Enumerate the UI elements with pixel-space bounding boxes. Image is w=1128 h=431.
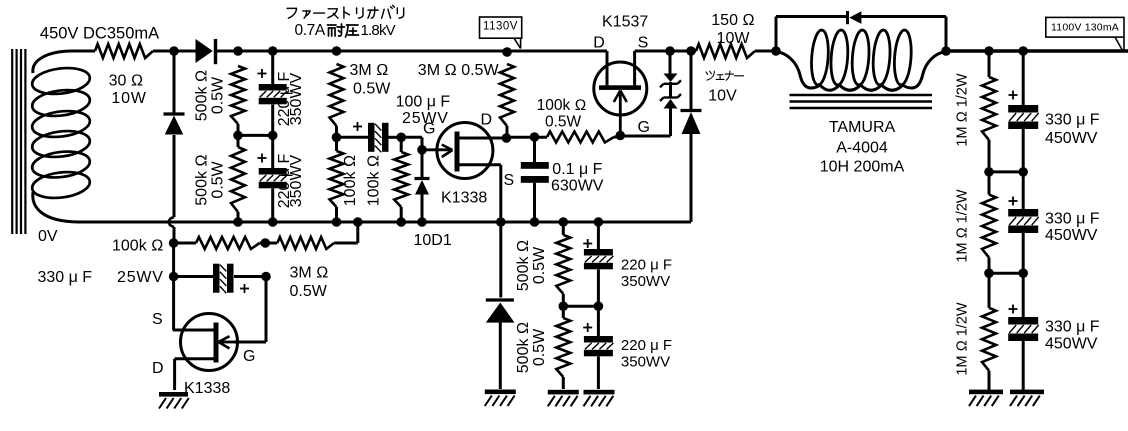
svg-text:S: S [152,311,163,328]
svg-text:1100V 130mA: 1100V 130mA [1051,22,1119,34]
inductor L1 core [790,95,933,108]
svg-text:1M Ω 1/2W: 1M Ω 1/2W [955,73,971,146]
svg-text:TAMURA: TAMURA [829,119,896,136]
wire top rail segment [153,50,196,53]
wire zener mid [669,82,672,98]
arrow gate Q2 [614,91,627,103]
transformer T1 primary winding [31,65,92,201]
wire 100k bottom [335,207,338,222]
wire hop to lower node [173,227,176,243]
transistor Q3 K1338 body [181,314,238,371]
transistor Q1 K1338 body [437,123,493,179]
node mid bleeder junctions [559,301,604,311]
polarity + t1 [583,239,592,248]
transistor Q3 channel bar [214,323,219,363]
label 0.5W lower2 [290,283,328,300]
resistor 100kΩ grid leak [196,237,260,249]
label 0.1μF [552,161,602,178]
wire 220u t2 ground [597,357,600,390]
resistor 100kΩ second [394,152,408,207]
label 100kΩ grid [112,238,163,255]
label 10V [708,88,737,105]
label TAMURA [829,119,896,136]
svg-text:0.5W: 0.5W [353,81,391,98]
label 220μF upper [276,71,293,126]
ground output resistor chain [969,390,1003,407]
wire drain Q3 [175,359,214,390]
wire diode D2 to hop [173,135,176,217]
svg-text:220 μ F: 220 μ F [621,257,672,274]
wire 500k t2 ground [562,377,565,389]
label 3MΩ lower [290,265,329,282]
resistor 500kΩ 0.5W lower [231,147,245,212]
resistor 100kΩ 0.5W [547,132,614,143]
wire 0V rail [78,221,691,224]
wire c2 bottom [1022,233,1025,273]
wire 0.1uF top [533,137,536,162]
svg-text:D: D [152,360,164,377]
svg-text:150 Ω: 150 Ω [711,12,754,29]
node cap junctions [332,133,406,143]
label G Q3 [243,348,255,365]
svg-text:D: D [593,35,605,52]
label 500kΩ upper [194,70,211,121]
wire c3 to ground [1022,341,1025,390]
label 450WV c2 [1045,227,1098,244]
ground 500k chain [548,390,579,407]
wire node to cap [337,136,369,139]
wire cap bottom [271,189,274,223]
wire drain lead Q2 [606,51,609,85]
label 1MΩ second [955,189,971,262]
label D Q1 [481,112,493,129]
label G Q1 [423,121,435,138]
svg-text:10D1: 10D1 [414,232,452,249]
label D Q3 [152,360,164,377]
wire col266 down [234,277,266,343]
label S Q1 [504,172,515,189]
svg-text:0.5W: 0.5W [290,283,328,300]
label 450WV c1 [1045,130,1098,147]
svg-text:3M Ω: 3M Ω [290,265,329,282]
wire hop over 0V rail [169,217,174,227]
node gate junction Q2 [616,131,626,141]
wire 3M to node [335,126,338,151]
node lower row junctions [169,238,270,248]
svg-text:350WV: 350WV [621,353,670,370]
svg-text:G: G [243,348,255,365]
label 100μF [396,94,451,111]
polarity + c2 [1009,197,1018,206]
label 0.5W [353,81,391,98]
svg-text:K1537: K1537 [602,14,648,31]
svg-text:A-4004: A-4004 [836,140,888,157]
wire choke bottom arcs [820,85,903,90]
label 05W t1 [531,246,548,284]
wire mid link 238-273 [238,134,273,137]
label 500k t1 [515,240,532,291]
wire 330u right [234,275,266,278]
ground output cap chain [1010,390,1044,407]
svg-text:450WV: 450WV [1045,336,1098,353]
label 0.7A 耐圧1.8kV [295,22,396,39]
wire from node A down [173,51,176,113]
svg-text:100k Ω: 100k Ω [537,97,587,114]
wire mid bleeder link [563,305,598,308]
label K1338 Q3 [184,380,230,397]
svg-text:0V: 0V [38,228,58,245]
wire prot diode top [499,222,502,298]
svg-text:0.1 μ F: 0.1 μ F [552,161,602,178]
callout 1130V [480,17,522,49]
svg-text:330 μ F: 330 μ F [1045,112,1100,129]
svg-text:K1338: K1338 [184,380,230,397]
resistor 3MΩ 0.5W lower [277,237,334,249]
wire 220u t2 top [597,306,600,336]
wire tier2 link [989,170,1023,173]
svg-text:220 μ F: 220 μ F [621,337,672,354]
label K1537 [602,14,648,31]
label 1MΩ third [955,302,971,375]
svg-text:0.5W: 0.5W [545,114,582,131]
svg-text:500k Ω: 500k Ω [194,154,211,205]
wire col173 down [172,243,175,330]
wire diode D3 top [690,51,693,109]
svg-text:S: S [504,172,515,189]
resistor 3MΩ 0.5W first [330,64,344,126]
label 350WV t1 [621,273,670,290]
label 05W t2 [531,328,548,366]
wire zener top [669,51,672,74]
svg-text:500k Ω: 500k Ω [194,70,211,121]
wire choke entry [776,52,820,89]
node tier3 junctions [984,268,1028,278]
label 10H 200mA [820,159,905,176]
arrow gate Q3 [219,336,230,348]
svg-text:1M Ω 1/2W: 1M Ω 1/2W [955,189,971,262]
wire c1 bottom [1022,129,1025,172]
label S Q3 [152,311,163,328]
svg-text:0.5W: 0.5W [531,246,548,284]
label 10W [111,90,146,107]
node top rail junctions [169,46,512,57]
label 10W 150 [717,30,751,47]
wire 220u t1 bottom [597,270,600,307]
svg-text:G: G [423,121,435,138]
wire 500k bottom [237,212,240,222]
svg-text:S: S [638,35,649,52]
wire gate lead Q1 [422,148,452,151]
label 0.5W lower [210,160,227,198]
wire r1 bottom [988,140,991,172]
zener diode ZD1 [660,74,681,88]
wire source lead Q2 [633,51,636,85]
resistor 500kΩ 0.5W upper [231,66,245,124]
svg-text:330 μ F: 330 μ F [38,269,93,286]
label 450WV c3 [1045,336,1098,353]
label A-4004 [836,140,888,157]
resistor 1MΩ 1/2W third [982,273,996,371]
capacitor 330μF 25WV [213,264,234,294]
resistor 3MΩ 0.5W second [500,64,514,126]
wire diode D3 bottom [690,133,693,222]
label 220μF t2 [621,337,672,354]
wire transformer bottom lead (0V) [33,192,78,222]
label ファーストリカバリ [287,5,404,18]
wire 100k second top [400,137,403,152]
label 3MΩ [350,62,389,79]
wire source rail [635,50,696,53]
svg-text:330 μ F: 330 μ F [1045,319,1100,336]
label 0.5W upper [210,76,227,114]
wire to K1537 gate node [614,135,620,137]
svg-text:0.7A: 0.7A [295,22,326,39]
wire cap mid [271,105,274,169]
svg-text:350WV: 350WV [288,72,305,125]
polarity + c3 [1009,305,1018,314]
diode D3 [681,111,702,135]
svg-text:G: G [638,119,650,136]
label ツェナー [706,71,744,80]
wire c1 top [1022,51,1025,105]
label 3MΩ 0.5W second [418,62,500,79]
label 220μF lower [276,153,293,208]
svg-text:100k Ω: 100k Ω [112,238,163,255]
svg-text:10H 200mA: 10H 200mA [820,159,905,176]
svg-text:D: D [481,112,493,129]
capacitor 220μF 350WV t1 [584,249,614,269]
wire output rail [946,49,1128,52]
resistor 500kΩ 0.5W t2 [556,318,570,377]
node gate junction [417,145,427,155]
wire lower row riser [334,222,358,243]
zener diode ZD2 [660,94,681,109]
label D Q2 [593,35,605,52]
resistor 1MΩ 1/2W first [982,51,996,140]
wire transformer top lead [33,51,95,73]
svg-text:450WV: 450WV [1045,227,1098,244]
diode D1 (fast recovery) [196,39,216,64]
label 1MΩ first [955,73,971,146]
svg-text:3M Ω 0.5W: 3M Ω 0.5W [418,62,500,79]
capacitor 220μF 350WV t2 [584,336,614,356]
resistor 500kΩ 0.5W t1 [556,235,570,294]
svg-text:450V DC350mA: 450V DC350mA [40,25,159,43]
capacitor 330μF 450WV first [1008,105,1038,129]
wire bypass left [776,17,848,52]
wire lower row mid [260,242,278,245]
arrow gate Q1 [442,145,453,157]
capacitor 0.1μF 630WV [521,162,549,183]
node 0.1uF junction [530,132,540,142]
svg-text:100k Ω: 100k Ω [342,155,359,206]
wire bypass right [861,17,946,52]
svg-text:350WV: 350WV [621,273,670,290]
resistor 30Ω 10W [95,44,153,58]
wire top rail to K1537 drain [217,50,607,53]
polarity + 330u [240,284,249,293]
label 30Ω [109,73,144,90]
wire 500k t2 top [562,294,565,318]
polarity + c1 [1009,91,1018,100]
node output junctions [984,46,1028,56]
diode D2 [164,114,185,135]
svg-text:350WV: 350WV [288,154,305,207]
label 100kΩ second [366,155,383,206]
wire 500k t1 top [562,222,565,235]
svg-text:K1338: K1338 [441,190,487,207]
wire c2 top [1022,172,1025,209]
wire r2 bottom [988,258,991,274]
node choke right [941,46,951,56]
label 100kΩ first [342,155,359,206]
wire tier3 link [989,272,1023,275]
callout 1100V 130mA [1046,17,1124,50]
wire 330u left [174,275,213,278]
svg-text:10W: 10W [111,90,146,107]
wire 0.1uF bottom [533,183,536,222]
capacitor 330μF 450WV third [1008,317,1038,341]
polarity + upper [258,69,267,78]
label 330μF c3 [1045,319,1100,336]
label 450V DC350mA [40,25,159,43]
svg-text:1M Ω 1/2W: 1M Ω 1/2W [955,302,971,375]
label 350WV upper [288,72,305,125]
label 330μF c1 [1045,112,1100,129]
wire 3M second bottom [506,126,509,138]
svg-text:0.5W: 0.5W [531,328,548,366]
wire gate lead Q2 [619,91,622,136]
wire gate node down [421,150,424,177]
wire 500k mid [237,124,240,147]
svg-text:100k Ω: 100k Ω [366,155,383,206]
node mid junctions [233,131,277,141]
svg-text:1.8kV: 1.8kV [361,22,396,39]
svg-text:450WV: 450WV [1045,130,1098,147]
wire 100k second bottom [400,207,403,221]
transformer core [12,49,25,234]
svg-text:25WV: 25WV [117,269,164,286]
label 350WV lower [288,154,305,207]
capacitor 100μF 25WV [368,123,389,153]
label 630WV [551,178,604,195]
wire lower row start [174,242,196,245]
svg-text:100 μ F: 100 μ F [396,94,451,111]
resistor 150Ω 10W [696,44,755,58]
wire source Q3 [173,329,214,332]
svg-text:630WV: 630WV [551,178,604,195]
node drain junction [502,133,512,143]
svg-text:500k Ω: 500k Ω [515,240,532,291]
wire 220u t1 top [597,222,600,249]
label 25WV [402,110,449,127]
svg-text:0.5W: 0.5W [210,76,227,114]
label 220μF t1 [621,257,672,274]
svg-text:330 μ F: 330 μ F [1045,211,1100,228]
transistor Q2 channel bar [599,85,641,90]
capacitor 220μF 350WV lower [259,168,288,188]
label K1338 Q1 [441,190,487,207]
capacitor 220μF 350WV upper [259,84,288,104]
ground Q3 drain [159,392,189,409]
wire r3 to ground [988,371,991,390]
wire 150 to choke [755,50,777,53]
svg-text:30 Ω: 30 Ω [109,73,144,90]
diode D5 [486,300,515,323]
resistor 100kΩ first [330,151,344,207]
svg-text:1130V: 1130V [483,21,518,33]
capacitor 330μF 450WV second [1008,209,1038,233]
svg-text:10W: 10W [717,30,751,47]
diode 10D1 [415,179,430,195]
wire drain Q1 [460,137,507,140]
ground protection diode [485,390,516,407]
svg-text:3M Ω: 3M Ω [350,62,389,79]
label 500k t2 [515,322,532,373]
node zener/diode junctions [665,46,696,56]
wire cap column top [271,51,274,84]
wire c3 top [1022,273,1025,317]
svg-text:0.5W: 0.5W [210,160,227,198]
wire drain node to cap node [506,136,547,139]
label S Q2 [638,35,649,52]
label 150Ω [711,12,754,29]
node choke left [771,46,781,56]
node 0V rail junctions [233,217,603,227]
node tier2 junctions [984,167,1028,177]
wire choke exit [903,52,946,89]
label 330μF 25WV [38,269,164,286]
ground 220u chain [584,390,615,407]
svg-text:500k Ω: 500k Ω [515,322,532,373]
resistor 1MΩ 1/2W second [982,172,996,258]
label 500kΩ lower [194,154,211,205]
wire zener bottom to gate [620,109,670,137]
wire 10D1 to rail [421,194,424,222]
label 100kΩ 0.5W [537,97,587,131]
polarity + [353,122,362,131]
wire source Q1 [460,165,501,222]
polarity + t2 [583,323,592,332]
wire gate lead Q3 [219,341,235,344]
transistor Q2 K1537 body [594,62,647,115]
label 10D1 [414,232,452,249]
label 330μF c2 [1045,211,1100,228]
wire prot diode bottom [499,323,502,389]
label 350WV t2 [621,353,670,370]
label G Q2 [638,119,650,136]
polarity + lower [258,154,267,163]
wire cap to node [389,136,402,139]
inductor L1 winding [810,29,913,85]
diode D4 bypass [848,11,862,24]
label 0V [38,228,58,245]
transistor Q1 channel bar [455,132,460,172]
svg-text:10V: 10V [708,88,737,105]
node 330u junctions [169,272,271,282]
wire to gate node [401,137,422,150]
